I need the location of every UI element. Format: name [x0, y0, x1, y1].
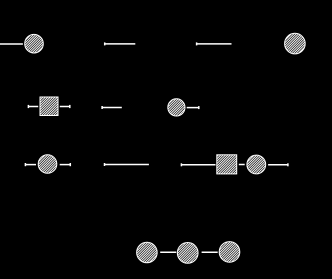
wire row1 left from edge	[0, 43, 23, 45]
arrow A2 row1 middle-right, head at left	[197, 42, 232, 45]
arrow A5 row2 middle, head at left	[102, 106, 122, 109]
particle C8 hatched circle row4 right	[219, 242, 240, 263]
bond row4 C7-C8	[202, 251, 218, 253]
arrow A9 row3 long middle, head at left	[104, 163, 148, 166]
arrow A7 row3 far-left, head at left	[25, 163, 36, 166]
particle C6 hatched circle row4 left	[137, 242, 158, 263]
bond row4 C6-C7	[160, 251, 176, 253]
particle C3 hatched circle row2	[168, 99, 185, 116]
arrow A4 row2 right of square, head at right	[60, 105, 70, 108]
arrow A8 row3 right of C4, head at right	[60, 163, 71, 166]
arrow A3 row2 left of square, head at left	[28, 105, 38, 108]
particle C5 hatched circle row3	[247, 155, 266, 174]
arrow A10 row3 before square, head at left	[181, 163, 215, 166]
bond row3 square to circle	[239, 164, 245, 166]
arrow A1 row1 middle-left, head at left	[105, 42, 136, 45]
particle S2 hatched square row3	[217, 155, 237, 174]
particle C7 hatched circle row4 middle	[177, 243, 198, 264]
arrow A6 row2 right of C3, head at right	[187, 106, 199, 109]
particle S1 hatched square row2	[40, 97, 58, 116]
particle C4 hatched circle row3 left	[38, 155, 57, 174]
particle C2 hatched circle row1 right	[285, 33, 306, 54]
arrow A11 row3 right of C5, head at right	[268, 163, 288, 166]
particle C1 hatched circle row1 left	[25, 34, 44, 53]
